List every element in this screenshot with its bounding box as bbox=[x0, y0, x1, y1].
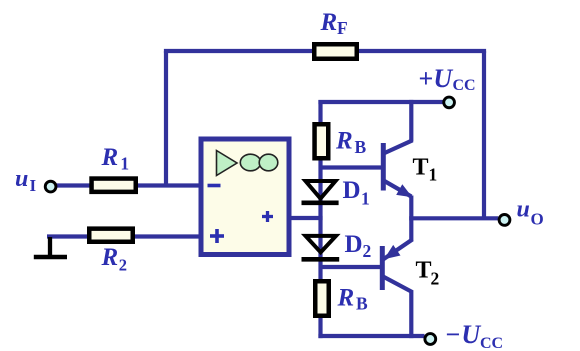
wire: ground to R2 bbox=[47, 234, 92, 238]
svg-text:+U: +U bbox=[419, 64, 454, 93]
resistor RB upper bbox=[315, 124, 329, 158]
svg-text:I: I bbox=[30, 176, 37, 195]
svg-text:T: T bbox=[416, 258, 432, 284]
svg-text:2: 2 bbox=[431, 269, 440, 289]
wire: diode chain vertical bbox=[318, 100, 322, 338]
resistor R1 bbox=[92, 179, 136, 192]
op-amp output plus sign bbox=[262, 211, 273, 222]
op-amp noninverting input plus sign bbox=[210, 229, 224, 243]
svg-text:R: R bbox=[320, 9, 338, 36]
svg-text:R: R bbox=[337, 285, 355, 312]
svg-text:−U: −U bbox=[446, 320, 482, 349]
op-amp U1 box bbox=[201, 139, 289, 255]
wire: -Ucc rail bbox=[318, 334, 424, 338]
wire: input to R1 bbox=[55, 183, 92, 187]
svg-text:F: F bbox=[337, 18, 348, 38]
wire: T2 collector vertical bbox=[409, 291, 413, 339]
terminal -Ucc bbox=[425, 334, 436, 345]
svg-text:2: 2 bbox=[119, 256, 127, 275]
svg-text:1: 1 bbox=[120, 154, 129, 174]
terminal uO bbox=[499, 215, 510, 226]
op-amp logo triangle bbox=[217, 151, 238, 176]
wire: feedback left vertical bbox=[164, 51, 168, 188]
op-amp inverting input minus sign bbox=[208, 184, 221, 188]
wire: feedback top horizontal bbox=[164, 49, 486, 53]
resistor RF bbox=[314, 44, 357, 59]
terminal uI bbox=[45, 181, 56, 192]
svg-text:1: 1 bbox=[429, 165, 438, 185]
wire: R1 to op-amp inverting input bbox=[136, 183, 201, 187]
wire: output node to uO terminal bbox=[409, 216, 498, 220]
diode D1 bbox=[302, 181, 339, 203]
svg-text:1: 1 bbox=[361, 189, 370, 209]
resistor R2 bbox=[89, 229, 133, 242]
wire: op-amp output to diode chain bbox=[289, 216, 323, 220]
op-amp logo ellipse right bbox=[259, 154, 278, 171]
svg-text:B: B bbox=[355, 137, 367, 157]
svg-text:O: O bbox=[531, 210, 544, 229]
terminal +Ucc bbox=[444, 97, 455, 108]
wire: +Ucc rail bbox=[318, 100, 443, 104]
svg-text:D: D bbox=[345, 231, 363, 258]
resistor RB lower bbox=[315, 281, 329, 316]
svg-text:T: T bbox=[413, 155, 429, 181]
op-amp logo ellipse left bbox=[240, 154, 260, 171]
wire: feedback right vertical bbox=[482, 51, 486, 220]
svg-text:B: B bbox=[356, 294, 368, 314]
wire: emitter junction vertical bbox=[409, 196, 413, 242]
svg-text:CC: CC bbox=[480, 335, 503, 351]
svg-text:R: R bbox=[335, 128, 353, 155]
svg-text:R: R bbox=[101, 144, 119, 171]
svg-text:u: u bbox=[517, 197, 530, 223]
wire: T2 base lead bbox=[321, 265, 382, 269]
svg-text:D: D bbox=[343, 177, 361, 204]
ground bbox=[34, 237, 67, 257]
wire: T1 base lead bbox=[321, 165, 383, 169]
svg-text:u: u bbox=[15, 166, 28, 192]
wire: T1 collector vertical bbox=[409, 100, 413, 142]
svg-text:2: 2 bbox=[363, 241, 372, 261]
diode D2 bbox=[302, 236, 340, 259]
wire: R2 to op-amp noninverting input bbox=[133, 234, 201, 238]
transistor T1 bbox=[383, 140, 412, 197]
svg-text:R: R bbox=[101, 244, 119, 271]
svg-text:CC: CC bbox=[453, 77, 476, 94]
transistor T2 bbox=[382, 239, 412, 292]
